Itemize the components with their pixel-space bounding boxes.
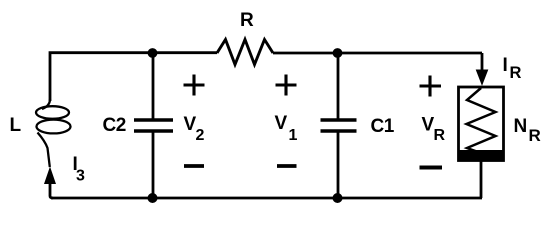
svg-text:R: R — [510, 64, 522, 82]
node dot bottom C1 — [333, 193, 343, 203]
inductor L — [36, 99, 71, 167]
nonlinear resistor NR box — [459, 87, 504, 161]
resistor R — [217, 40, 273, 65]
svg-text:N: N — [514, 116, 528, 137]
capacitor C2 branch wire upper — [152, 53, 155, 119]
minus V1 — [277, 164, 297, 168]
capacitor C2 branch wire lower — [152, 132, 155, 198]
arrow IR — [476, 70, 487, 85]
wire top-right segment — [273, 52, 482, 55]
wire left-bottom — [50, 181, 53, 198]
svg-text:V: V — [275, 113, 288, 134]
capacitor C2 plates — [134, 118, 173, 121]
svg-text:2: 2 — [196, 127, 205, 144]
svg-text:C1: C1 — [371, 116, 395, 137]
minus V2 — [184, 164, 204, 168]
svg-text:R: R — [240, 10, 254, 31]
NR bottom bar — [458, 150, 505, 161]
wire right vertical lower — [480, 161, 483, 198]
wire top-left segment — [50, 53, 217, 101]
node dot top C2 — [148, 48, 158, 58]
capacitor C1 plates — [321, 118, 357, 121]
svg-text:R: R — [529, 126, 541, 145]
svg-text:3: 3 — [76, 168, 85, 185]
svg-text:L: L — [10, 115, 22, 136]
NR internal zigzag — [467, 88, 496, 153]
plus V2 — [184, 75, 205, 96]
plus V1 — [276, 75, 297, 96]
arrow I3 — [45, 168, 56, 184]
node dot bottom C2 — [148, 193, 158, 203]
capacitor C1 branch wire lower — [337, 132, 340, 198]
svg-text:R: R — [434, 127, 446, 144]
capacitor C1 branch wire upper — [337, 53, 340, 119]
svg-text:C2: C2 — [103, 115, 126, 136]
node dot top C1 — [333, 48, 343, 58]
wire bottom — [51, 197, 482, 200]
minus VR — [420, 166, 443, 170]
wire right vertical upper — [481, 53, 484, 72]
plus VR — [420, 76, 442, 97]
svg-text:1: 1 — [289, 127, 298, 144]
svg-text:I: I — [503, 55, 508, 76]
